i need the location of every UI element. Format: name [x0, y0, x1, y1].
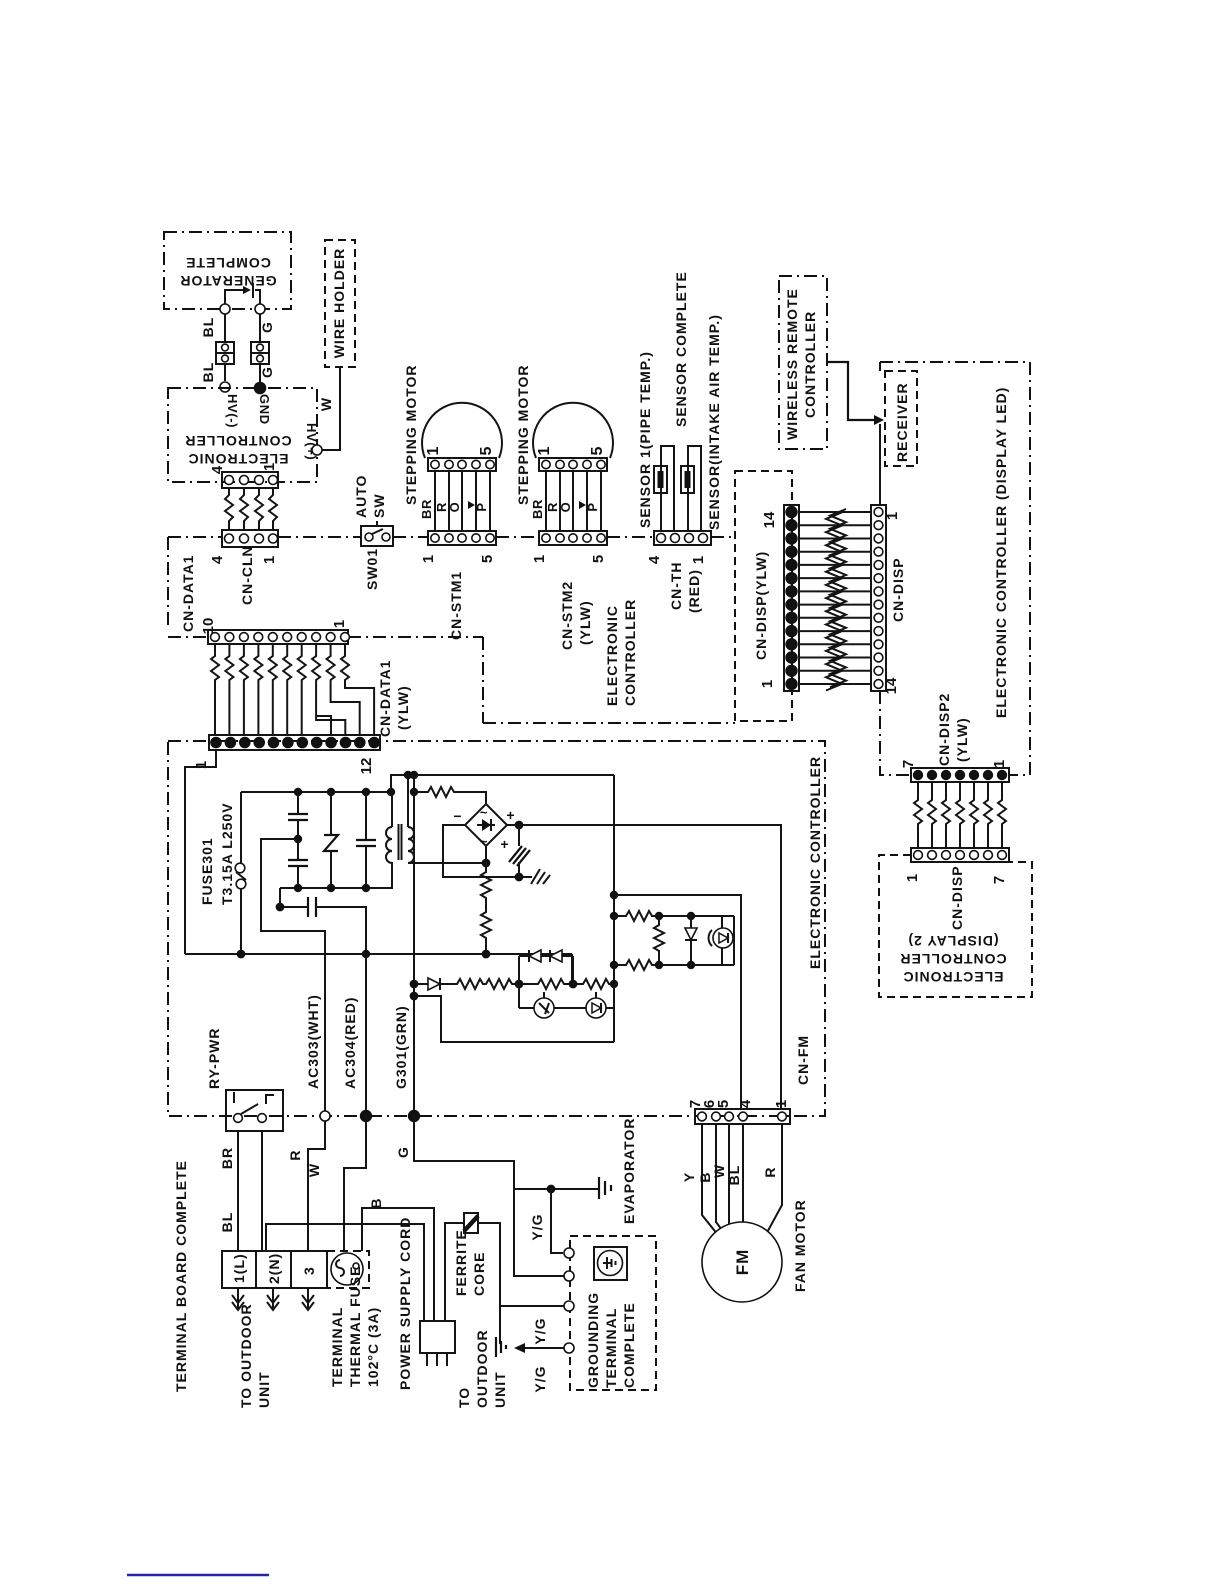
svg-text:Y: Y [681, 1172, 697, 1182]
svg-text:WIRELESS REMOTE: WIRELESS REMOTE [784, 288, 800, 440]
connector block BL [216, 342, 234, 364]
thermistor sensor 1 [654, 466, 667, 493]
node G generator terminal [255, 304, 265, 314]
svg-text:CONTROLLER: CONTROLLER [802, 311, 818, 418]
fuse FUSE301 [235, 792, 246, 954]
bridge rectifier D301 [453, 804, 515, 849]
svg-text:1: 1 [991, 760, 1008, 768]
svg-text:TO OUTDOOR: TO OUTDOOR [238, 1303, 254, 1408]
svg-text:1: 1 [773, 1100, 790, 1108]
svg-text:CN-STM1: CN-STM1 [448, 571, 464, 640]
wire G G301 to ground network [414, 1116, 564, 1276]
svg-text:STEPPING MOTOR: STEPPING MOTOR [515, 364, 531, 505]
svg-text:GROUNDING: GROUNDING [585, 1292, 601, 1388]
svg-text:CONTROLLER: CONTROLLER [899, 951, 1006, 967]
svg-text:(YLW): (YLW) [577, 600, 593, 645]
svg-text:R: R [287, 1149, 303, 1160]
capacitor C5 loop [276, 888, 366, 954]
svg-text:RECEIVER: RECEIVER [894, 382, 910, 462]
wire G lower [259, 364, 261, 383]
svg-text:CN-STM2: CN-STM2 [559, 581, 575, 650]
wires CN-STM2 [530, 471, 601, 531]
power supply cord wires [266, 1208, 464, 1321]
resistor R2 vertical [481, 846, 491, 954]
svg-text:BL: BL [726, 1165, 742, 1186]
svg-text:POWER SUPPLY CORD: POWER SUPPLY CORD [397, 1217, 413, 1390]
node HV(-) [220, 382, 230, 392]
connector CN-DISP2 7pin [911, 768, 1009, 782]
svg-text:TERMINAL: TERMINAL [329, 1307, 345, 1387]
svg-text:FERRITE: FERRITE [453, 1229, 469, 1296]
svg-text:CN-DISP2: CN-DISP2 [936, 693, 952, 766]
node AC304 [361, 1111, 372, 1122]
svg-text:1: 1 [690, 556, 707, 564]
connector CN-STM1 board side [428, 531, 496, 545]
electrolytic capacitor C4 [500, 825, 530, 877]
bridge bottom junction [482, 859, 489, 866]
svg-text:~: ~ [480, 805, 488, 820]
fan motor FM [702, 1222, 782, 1302]
sensor 1 (pipe temp) loop [661, 446, 674, 531]
svg-text:1: 1 [261, 463, 278, 471]
svg-text:RY-PWR: RY-PWR [206, 1028, 222, 1089]
svg-text:+: + [506, 807, 515, 823]
svg-text:CONTROLLER: CONTROLLER [622, 599, 638, 706]
rail bottom y954 [185, 953, 572, 955]
svg-text:TERMINAL BOARD COMPLETE: TERMINAL BOARD COMPLETE [173, 1160, 189, 1392]
wire to CN-FM pin4 [614, 895, 741, 1110]
svg-text:+: + [500, 836, 509, 852]
main controller box boundary (dash-dot) [168, 537, 735, 723]
svg-text:BR: BR [419, 499, 434, 519]
svg-text:G: G [395, 1146, 411, 1158]
opto coupler U1 [709, 916, 733, 965]
svg-text:2(N): 2(N) [266, 1253, 282, 1284]
svg-text:G: G [259, 366, 275, 378]
svg-text:3: 3 [301, 1266, 317, 1275]
wire holder box [325, 240, 355, 367]
resistor R5 vertical [654, 916, 664, 965]
svg-text:CN-DISP: CN-DISP [890, 557, 906, 622]
svg-text:FUSE301: FUSE301 [199, 837, 215, 905]
wires CN-STM1 [419, 471, 490, 531]
connector CN-FM [695, 1109, 790, 1124]
svg-text:COMPLETE: COMPLETE [621, 1302, 637, 1388]
rail y775 [391, 775, 614, 792]
bridge negative loop [443, 825, 519, 877]
capacitor C3 [356, 792, 376, 888]
vertical x614 [613, 775, 615, 1042]
wire AC304 to thermal fuse [344, 1116, 366, 1251]
svg-text:5: 5 [590, 555, 607, 563]
svg-text:CN-DISP: CN-DISP [949, 865, 965, 930]
svg-text:CN-CLN: CN-CLN [239, 545, 255, 605]
svg-text:O: O [558, 502, 573, 513]
node HV(+) [312, 445, 322, 455]
node G301 [409, 1111, 420, 1122]
svg-text:B: B [368, 1197, 384, 1208]
connector CN-DATA1 12pin (YLW) [209, 735, 380, 750]
wireless remote controller box [779, 276, 827, 449]
svg-text:1: 1 [261, 556, 278, 564]
svg-text:OUTDOOR: OUTDOOR [474, 1329, 490, 1408]
connector CN-CLN upper row [222, 472, 278, 488]
wire contact4 [525, 1347, 564, 1349]
outdoor earth ground [496, 1337, 506, 1357]
svg-text:ELECTRONIC: ELECTRONIC [903, 969, 1004, 985]
electronic controller (display 2) box [879, 855, 1032, 997]
connector CN-CLN lower row [222, 530, 278, 547]
svg-text:1: 1 [531, 555, 548, 563]
wire G301 vertical [413, 775, 415, 1116]
svg-text:CN-FM: CN-FM [795, 1035, 811, 1085]
transistor Q2 [554, 992, 614, 1018]
connector CN-DISP 7pin (display2 side) [911, 848, 1009, 862]
wire G [259, 314, 261, 342]
svg-text:1: 1 [884, 512, 901, 520]
svg-text:BL: BL [219, 1212, 235, 1233]
wire BL lower [224, 364, 226, 381]
wire to grounding terminal 1 [547, 1185, 563, 1253]
wire BL [224, 314, 226, 342]
svg-text:SW01: SW01 [364, 548, 380, 590]
node AC303 [320, 1111, 330, 1121]
svg-text:W: W [306, 1163, 322, 1177]
svg-text:BR: BR [530, 499, 545, 519]
transformer T1 [386, 775, 486, 888]
svg-text:G301(GRN): G301(GRN) [393, 1005, 409, 1089]
connector CN-STM2 motor side [539, 458, 607, 471]
svg-text:W: W [318, 397, 334, 411]
wires CN-DISP2 to CN-DISP with coils [914, 782, 1006, 848]
svg-text:14: 14 [883, 677, 900, 694]
svg-text:ELECTRONIC CONTROLLER (DISPLAY: ELECTRONIC CONTROLLER (DISPLAY LED) [993, 387, 1009, 718]
wire AC304 vertical [365, 954, 367, 1116]
svg-text:1(L): 1(L) [231, 1253, 247, 1283]
wire receiver to CN-DISP pin1 [879, 424, 881, 505]
svg-text:O: O [447, 502, 462, 513]
svg-text:1: 1 [425, 446, 442, 455]
svg-text:CN-TH: CN-TH [668, 561, 684, 610]
wire bridge+ to CN-FM pin1 [507, 825, 781, 1110]
power controller box (dash-dot) [168, 741, 825, 1116]
connector CN-TH [654, 531, 711, 545]
svg-text:G: G [259, 321, 275, 333]
svg-text:1: 1 [536, 446, 553, 455]
svg-text:AUTO: AUTO [353, 475, 369, 518]
bottom rail y1042 [414, 996, 614, 1042]
svg-text:WIRE HOLDER: WIRE HOLDER [331, 248, 347, 359]
connector CN-DISP(YLW) 14pin [784, 505, 799, 691]
zener diode Z [324, 792, 338, 888]
svg-text:P: P [585, 502, 600, 511]
wire relay to terminal 2(N) [261, 1131, 263, 1251]
diode D5 vertical [685, 916, 697, 965]
earth symbol in square [594, 1247, 627, 1280]
connector CN-STM2 board side [539, 531, 607, 545]
svg-text:Y/G: Y/G [532, 1317, 548, 1344]
power plug [420, 1321, 455, 1366]
svg-text:TO: TO [456, 1387, 472, 1408]
diode chain y984 [410, 978, 614, 990]
svg-text:EVAPORATOR: EVAPORATOR [621, 1118, 637, 1224]
rail y888 [280, 887, 393, 889]
thermistor sensor 2 [681, 466, 694, 493]
connector block G [251, 342, 269, 364]
receiver box [885, 371, 917, 466]
svg-text:AC304(RED): AC304(RED) [342, 997, 358, 1089]
svg-text:P: P [474, 502, 489, 511]
svg-text:5: 5 [589, 446, 606, 455]
svg-text:HV(-): HV(-) [225, 394, 240, 428]
svg-text:12: 12 [358, 758, 375, 775]
svg-text:SW: SW [371, 493, 387, 518]
svg-text:(DISPLAY 2): (DISPLAY 2) [907, 933, 998, 949]
wire wireless to receiver [827, 362, 884, 425]
svg-text:STEPPING MOTOR: STEPPING MOTOR [403, 364, 419, 505]
arrows to outdoor unit [232, 1288, 314, 1310]
node GND [255, 383, 266, 394]
stepping motor 2 [533, 403, 613, 458]
opto top line y916 [614, 911, 734, 921]
svg-text:FAN MOTOR: FAN MOTOR [792, 1199, 808, 1292]
svg-text:Y/G: Y/G [529, 1213, 545, 1240]
fan motor wires [702, 1124, 782, 1240]
svg-text:4: 4 [646, 555, 663, 564]
svg-text:W: W [711, 1164, 727, 1178]
wires CN-DISP(YLW) to CN-DISP with twisted pairs [799, 509, 871, 691]
svg-text:(YLW): (YLW) [395, 685, 411, 730]
thermal fuse cell (dashed) [327, 1251, 369, 1288]
svg-text:5: 5 [715, 1100, 732, 1108]
blue artifact line [127, 1574, 269, 1577]
sensor 2 (intake air temp) loop [688, 446, 701, 531]
svg-text:5: 5 [478, 446, 495, 455]
svg-text:T3.15A L250V: T3.15A L250V [219, 802, 235, 905]
svg-text:COMPLETE: COMPLETE [185, 255, 271, 271]
svg-text:SENSOR 1(PIPE TEMP.): SENSOR 1(PIPE TEMP.) [637, 351, 653, 528]
svg-text:7: 7 [991, 876, 1008, 884]
rail y792 [241, 791, 391, 793]
coil wires CN-CLN [225, 488, 277, 530]
node BL generator terminal [220, 304, 230, 314]
svg-text:UNIT: UNIT [256, 1371, 272, 1408]
svg-text:TERMINAL: TERMINAL [603, 1308, 619, 1388]
transistor Q1 [519, 992, 554, 1018]
svg-text:THERMAL FUSE: THERMAL FUSE [347, 1266, 363, 1387]
stepping motor 1 [422, 403, 502, 458]
wire pin1 to fuse rail [185, 750, 216, 954]
capacitor C2 [288, 860, 308, 888]
svg-text:(YLW): (YLW) [954, 717, 970, 762]
svg-text:BR: BR [219, 1147, 235, 1169]
relay RY-PWR [226, 1090, 283, 1131]
switch SW01 (AUTO SW) [361, 521, 393, 546]
svg-text:CONTROLLER: CONTROLLER [184, 433, 291, 449]
svg-text:BL: BL [200, 362, 216, 383]
connector CN-DISP 14pin (display side) [871, 505, 886, 691]
terminal board complete [222, 1251, 327, 1288]
capacitor C1 [288, 792, 308, 860]
svg-text:AC303(WHT): AC303(WHT) [305, 994, 321, 1089]
chassis ground [519, 869, 550, 884]
electronic controller (HV) box [168, 388, 317, 482]
svg-text:ELECTRONIC CONTROLLER: ELECTRONIC CONTROLLER [807, 756, 823, 969]
svg-text:(RED): (RED) [686, 569, 702, 613]
junction dots rail792 [295, 789, 302, 796]
wire between caps to AC303 [261, 836, 325, 1116]
ferrite core [464, 1213, 564, 1344]
svg-text:FM: FM [733, 1249, 752, 1276]
generator switch symbol [225, 283, 260, 304]
svg-text:ELECTRONIC: ELECTRONIC [604, 605, 620, 706]
wire BR relay to terminal 1(L) [237, 1131, 239, 1251]
resistor R1 top [414, 787, 486, 805]
svg-text:5: 5 [479, 555, 496, 563]
svg-text:7: 7 [900, 760, 917, 768]
rail954 corner to diode chain [571, 954, 573, 984]
dashed box around CN-DISP(YLW) [735, 471, 792, 721]
opto bottom line y965 [614, 916, 734, 970]
sub loop with series diodes [519, 950, 573, 1008]
svg-text:BL: BL [200, 317, 216, 338]
svg-text:R: R [762, 1166, 778, 1177]
svg-text:4: 4 [209, 555, 226, 564]
evaporator earth ground [599, 1177, 611, 1199]
svg-text:14: 14 [761, 511, 778, 528]
svg-text:SENSOR COMPLETE: SENSOR COMPLETE [673, 271, 689, 427]
grounding terminal complete box [570, 1236, 656, 1390]
wires CN-DATA1 with coils [211, 644, 374, 735]
svg-text:CN-DATA1: CN-DATA1 [180, 555, 196, 632]
connector CN-DATA1 10pin [208, 630, 349, 644]
wire W AC303 to terminal 3 [308, 1121, 325, 1251]
svg-text:CORE: CORE [471, 1252, 487, 1296]
svg-text:1: 1 [904, 874, 921, 882]
svg-text:1: 1 [420, 555, 437, 563]
thermal fuse symbol [331, 1253, 363, 1285]
svg-text:GENERATOR: GENERATOR [179, 273, 276, 289]
svg-text:CN-DATA1: CN-DATA1 [377, 660, 393, 737]
svg-text:4: 4 [209, 465, 226, 474]
svg-text:UNIT: UNIT [492, 1371, 508, 1408]
svg-text:GND: GND [257, 394, 272, 425]
svg-text:SENSOR(INTAKE AIR TEMP.): SENSOR(INTAKE AIR TEMP.) [706, 314, 722, 530]
svg-text:Y/G: Y/G [532, 1365, 548, 1392]
svg-text:−: − [453, 808, 462, 824]
dot at bridge + [515, 821, 522, 828]
svg-text:10: 10 [200, 618, 217, 635]
generator complete box [164, 232, 291, 309]
svg-text:102°C (3A): 102°C (3A) [365, 1307, 381, 1387]
electronic controller (display led) box [880, 362, 1030, 775]
wire W to wire holder [322, 367, 340, 450]
grounding terminal contacts [564, 1248, 574, 1258]
svg-text:1: 1 [331, 620, 348, 628]
svg-text:1: 1 [759, 680, 776, 688]
svg-text:CN-DISP(YLW): CN-DISP(YLW) [753, 551, 769, 660]
svg-text:4: 4 [737, 1099, 754, 1108]
connector CN-STM1 motor side [428, 458, 496, 471]
